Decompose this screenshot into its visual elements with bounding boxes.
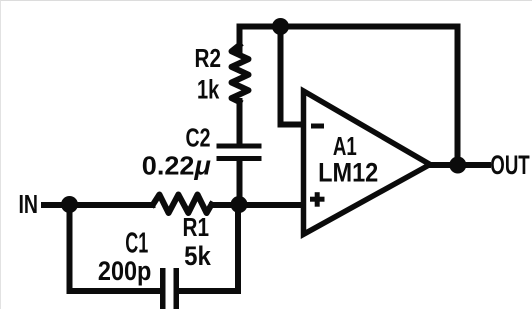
svg-text:0.22μ: 0.22μ [142,150,211,180]
svg-text:C1: C1 [125,228,148,260]
svg-text:R2: R2 [195,43,222,73]
wire from top node down to inverting input [281,27,302,125]
wire R1 to non-inverting input [212,202,301,208]
wire top rail right segment [281,24,458,30]
svg-text:IN: IN [19,189,39,219]
resistor R2 [232,45,249,102]
svg-text:200p: 200p [98,256,151,286]
node junction output [449,157,466,174]
node junction R1/C2 [231,196,248,213]
svg-text:LM12: LM12 [318,157,378,187]
resistor R1 [153,195,212,214]
wire bottom left to C1 [70,288,161,294]
capacitor C1 plates [160,268,179,309]
svg-text:1k: 1k [197,74,220,104]
op-amp minus input symbol [311,124,324,129]
svg-text:C2: C2 [186,123,211,153]
wire op-amp output to OUT [430,162,488,168]
node junction IN [61,196,78,213]
op-amp plus input symbol [310,192,325,207]
svg-text:R1: R1 [183,212,210,242]
wire R2 bottom lead to C2 [237,101,243,144]
wire IN to R1 [44,202,153,208]
wire left vertical down from IN node [67,205,73,291]
op-amp A1 triangle [304,91,431,234]
wire feedback vertical right to output node [455,27,461,166]
wire C2 bottom lead to node [237,161,243,205]
wire C1 to bottom right vertical [179,207,238,291]
wire top rail left segment with R2 top lead [240,27,281,52]
node junction top [272,18,289,35]
svg-text:OUT: OUT [490,150,530,180]
capacitor C2 plates [217,144,262,162]
svg-text:5k: 5k [184,241,212,271]
